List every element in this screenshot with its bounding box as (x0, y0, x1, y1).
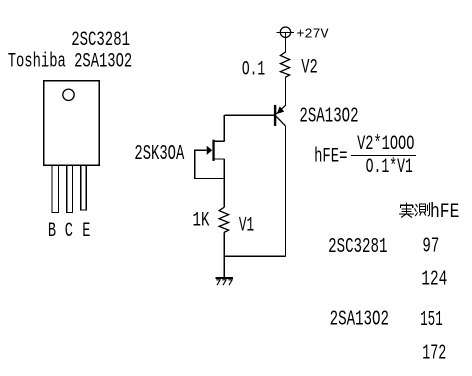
svg-text:V2*1OOO: V2*1OOO (357, 133, 414, 156)
wire collector return to ground node (224, 255, 285, 257)
label V1 (239, 214, 254, 237)
value 124 (421, 268, 447, 291)
svg-text:+27V: +27V (296, 27, 329, 43)
Q1 emitter arrow (PNP) (277, 106, 284, 114)
J1 gate arrow (207, 146, 213, 155)
svg-text:B: B (48, 220, 56, 243)
svg-text:151: 151 (420, 309, 443, 332)
svg-text:O.1*V1: O.1*V1 (366, 156, 413, 179)
label 2SA1302 (Q1) (299, 105, 358, 128)
label hFE (column header) (430, 201, 459, 224)
label +27V (296, 27, 329, 43)
fraction bar (351, 155, 416, 157)
wire source down to resistor 1K (223, 159, 225, 208)
ground hatch 3 (228, 280, 232, 285)
label V2 (301, 57, 318, 80)
value 172 (422, 342, 446, 365)
svg-text:O.1: O.1 (242, 59, 265, 82)
Q1 collector diagonal (276, 117, 285, 126)
transistor package body (TO-3P outline) (44, 81, 100, 165)
ground (216, 277, 233, 279)
value 151 (420, 309, 443, 332)
label 1K (193, 209, 210, 232)
ground hatch 1 (216, 280, 220, 285)
package lead B (52, 165, 59, 213)
svg-text:2SC3281: 2SC3281 (71, 29, 130, 52)
svg-text:2SA13O2: 2SA13O2 (330, 309, 389, 332)
svg-text:2SK3OA: 2SK3OA (134, 143, 184, 166)
JFET J1 2SK30A channel bar (212, 140, 214, 161)
resistor 0.1 (V2) (280, 52, 289, 77)
svg-text:172: 172 (422, 342, 446, 365)
svg-text:C: C (65, 220, 73, 243)
wire 1K to ground node (223, 232, 225, 277)
wire Q1 base (224, 114, 274, 116)
wire supply to resistor V2 (285, 33, 287, 53)
label 2SC3281 (row 1) (328, 236, 387, 259)
label Toshiba 2SA1302 (title) (8, 50, 133, 73)
package lead C (67, 165, 73, 213)
label B C E (pin names) (48, 220, 90, 243)
svg-text:1K: 1K (193, 209, 210, 232)
label V2*1000 (numerator) (357, 133, 414, 156)
label 2SA1302 (row 2) (330, 309, 389, 332)
value 97 (422, 236, 439, 259)
wire resistor to emitter (285, 77, 287, 105)
J1 drain lead (215, 140, 225, 142)
svg-text:Toshiba 2SA13O2: Toshiba 2SA13O2 (8, 50, 133, 73)
power terminal +27V (277, 27, 295, 37)
package mounting hole (63, 89, 74, 100)
svg-text:2SC3281: 2SC3281 (328, 236, 387, 259)
svg-text:hFE=: hFE= (314, 145, 347, 168)
svg-text:97: 97 (422, 236, 439, 259)
svg-text:V2: V2 (301, 57, 318, 80)
svg-text:hFE: hFE (430, 201, 459, 224)
J1 source lead (215, 158, 225, 160)
ground hatch 2 (222, 280, 226, 285)
svg-text:V1: V1 (239, 214, 254, 237)
resistor 1K (V1) (219, 207, 229, 232)
label 0.1 (242, 59, 265, 82)
wire gate to source loop (195, 150, 225, 178)
label hFE= (formula) (314, 145, 347, 168)
svg-text:2SA13O2: 2SA13O2 (299, 105, 358, 128)
svg-text:E: E (82, 220, 90, 243)
transistor Q1 2SA1302 (PNP) base bar (274, 105, 276, 126)
Q1 emitter diagonal (276, 105, 285, 114)
label 2SK30A (J1) (134, 143, 184, 166)
label 0.1*V1 (denominator) (366, 156, 413, 179)
label 2SC3281 (title) (71, 29, 130, 52)
label 実測 (kanji, drawn) (399, 202, 414, 214)
package lead E (81, 165, 86, 210)
wire Q1 collector down (285, 126, 287, 256)
svg-text:124: 124 (421, 268, 447, 291)
wire J1 drain up to base node (223, 115, 225, 141)
